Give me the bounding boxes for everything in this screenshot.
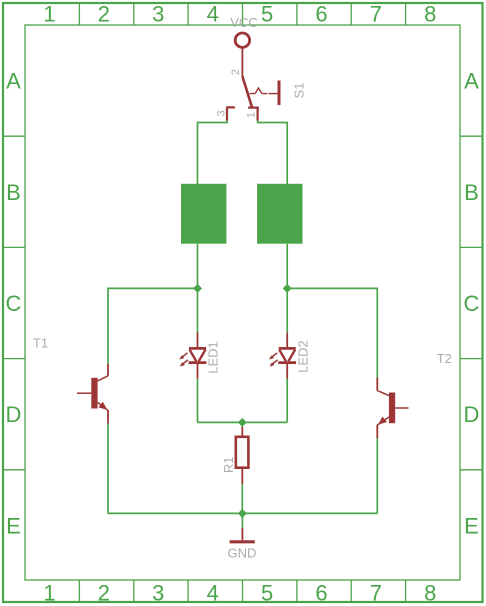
svg-text:3: 3 <box>152 2 164 27</box>
svg-text:2: 2 <box>230 69 242 75</box>
svg-text:6: 6 <box>315 581 327 606</box>
wire node to T2 collector <box>287 288 377 377</box>
wire right lamp to LED2 <box>286 244 288 333</box>
svg-text:D: D <box>6 402 22 427</box>
svg-text:T2: T2 <box>437 351 452 366</box>
svg-text:2: 2 <box>98 2 110 27</box>
svg-text:4: 4 <box>207 2 219 27</box>
lamp H1 body <box>181 184 226 244</box>
svg-text:7: 7 <box>370 2 382 27</box>
svg-text:B: B <box>6 180 21 205</box>
junction node right <box>283 284 292 293</box>
wire gnd bus to GND symbol <box>241 513 243 528</box>
svg-text:5: 5 <box>261 2 273 27</box>
resistor R1 <box>241 427 243 437</box>
svg-text:1: 1 <box>245 112 257 118</box>
LED2 <box>272 332 296 378</box>
LED1 <box>182 332 206 378</box>
svg-text:3: 3 <box>152 581 164 606</box>
wire left lamp to LED1 <box>197 244 199 333</box>
junction node gnd <box>238 509 247 518</box>
wire LED bus to R1 <box>198 421 288 423</box>
svg-text:3: 3 <box>215 110 227 116</box>
svg-text:S1: S1 <box>292 83 307 99</box>
wire R1 to gnd bus <box>241 484 243 513</box>
transistor T2 <box>377 378 408 438</box>
junction node R1 top <box>238 418 247 427</box>
switch S1 actuator bar <box>278 81 281 106</box>
svg-text:5: 5 <box>261 581 273 606</box>
switch S1 actuator stem <box>268 93 277 95</box>
svg-text:A: A <box>6 69 21 94</box>
svg-text:E: E <box>6 513 21 538</box>
lamp H2 body <box>257 184 302 244</box>
wire T2 emitter to gnd bus <box>376 438 378 513</box>
svg-text:E: E <box>464 513 479 538</box>
svg-text:D: D <box>464 402 480 427</box>
switch S1 lever <box>242 76 252 107</box>
svg-text:LED1: LED1 <box>206 341 221 374</box>
frame numbers bottom <box>43 581 436 606</box>
wire node to T1 collector <box>108 288 198 363</box>
svg-text:C: C <box>6 291 22 316</box>
svg-text:1: 1 <box>43 2 55 27</box>
svg-text:1: 1 <box>43 581 55 606</box>
wire gnd bus <box>108 512 377 514</box>
wire LED1 cathode down <box>197 379 199 423</box>
transistor T1 <box>77 364 108 424</box>
switch S1 pin 3 contact <box>226 107 235 120</box>
wire VCC to switch pin2 <box>241 48 243 77</box>
svg-text:B: B <box>464 180 479 205</box>
wire LED2 cathode down <box>286 379 288 423</box>
svg-text:A: A <box>464 69 479 94</box>
svg-text:LED2: LED2 <box>296 340 311 373</box>
svg-text:8: 8 <box>424 2 436 27</box>
switch S1 dashed link <box>250 88 268 94</box>
svg-text:2: 2 <box>98 581 110 606</box>
frame letters right <box>464 69 480 539</box>
wire T1 emitter to gnd bus <box>107 424 109 514</box>
svg-text:R1: R1 <box>221 456 236 473</box>
ground symbol <box>241 528 243 540</box>
row dividers right <box>460 136 483 470</box>
frame letters left <box>6 69 22 539</box>
switch S1 pin 1 contact <box>248 108 259 121</box>
column dividers top <box>79 3 405 25</box>
column dividers bottom <box>79 580 405 602</box>
supply VCC circle <box>235 33 249 47</box>
row dividers left <box>3 136 25 470</box>
svg-text:8: 8 <box>424 581 436 606</box>
svg-text:VCC: VCC <box>230 15 257 30</box>
svg-text:T1: T1 <box>33 336 48 351</box>
wire switch pin3 to left lamp <box>198 121 228 185</box>
svg-text:7: 7 <box>370 581 382 606</box>
svg-text:C: C <box>464 291 480 316</box>
junction node left <box>193 284 202 293</box>
wire switch pin1 to right lamp <box>258 121 288 185</box>
frame numbers top <box>43 2 436 27</box>
svg-text:GND: GND <box>228 546 257 561</box>
svg-text:6: 6 <box>315 2 327 27</box>
svg-text:4: 4 <box>207 581 219 606</box>
